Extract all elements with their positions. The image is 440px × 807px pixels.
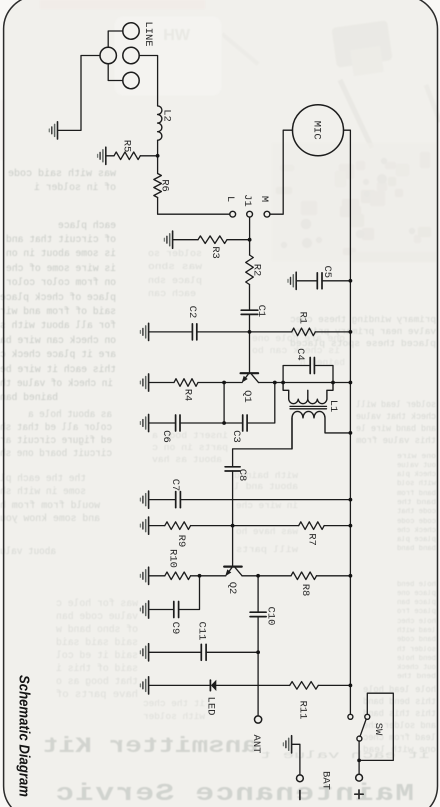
wire R8 to rail <box>317 575 351 577</box>
wire C1 to node C <box>249 314 251 332</box>
wire MIC to right rail <box>344 130 351 714</box>
switch SW contact 1 <box>348 714 353 719</box>
wire L1 secondary to C8 <box>233 418 292 467</box>
wire C4 right branch <box>314 366 333 383</box>
wire C6 ground stem <box>149 422 176 424</box>
svg-text:R1: R1 <box>296 311 308 324</box>
svg-text:each can: each can <box>148 288 196 299</box>
ground G3 (R3) <box>164 231 172 248</box>
ground G10 (R10) <box>140 567 148 584</box>
transformer L1 core <box>290 406 327 408</box>
ground G11 (C9) <box>140 601 148 618</box>
svg-text:place of check place: place of check place <box>0 292 116 304</box>
wire BAT minus ground stem <box>292 744 300 775</box>
svg-text:WH: WH <box>163 27 190 44</box>
svg-text:band code: band code <box>397 636 436 644</box>
svg-text:have parts of: have parts of <box>56 689 138 701</box>
wire node F down to C3 <box>247 383 275 424</box>
svg-text:that boog as o: that boog as o <box>56 676 138 688</box>
wire node B to R2 <box>249 240 251 255</box>
connector LINE jack circles <box>100 23 139 89</box>
inductor L2 <box>158 106 162 140</box>
node D (R4/Q1 emitter) <box>222 381 226 385</box>
svg-text:C2: C2 <box>186 306 198 319</box>
resistor R10 <box>165 572 191 580</box>
wire SW node to BAT plus <box>358 760 360 774</box>
rail dot R8 <box>349 574 353 578</box>
resistor R5 <box>114 152 140 160</box>
wire node F to C4 row <box>275 382 351 384</box>
wire C11 to node J <box>206 651 258 653</box>
svg-text:C7: C7 <box>169 479 181 492</box>
svg-text:R2: R2 <box>251 264 263 277</box>
wire C6 to node E <box>180 422 224 424</box>
svg-text:R4: R4 <box>181 389 193 402</box>
svg-text:solder th: solder th <box>397 646 436 654</box>
svg-text:code code: code code <box>397 518 436 526</box>
svg-text:R10: R10 <box>167 549 179 568</box>
wire node C to R1 <box>250 331 292 333</box>
capacitor C7 <box>176 492 181 508</box>
wire C11 ground stem <box>149 651 201 653</box>
svg-text:this each it wire be: this each it wire be <box>0 364 116 376</box>
svg-text:is some about in on: is some about in on <box>6 248 116 260</box>
svg-text:in wire che: in wire che <box>236 500 298 511</box>
rail dot C5 <box>349 279 353 283</box>
svg-text:C8: C8 <box>236 469 248 482</box>
svg-text:C4: C4 <box>294 348 306 361</box>
svg-text:LED: LED <box>205 697 217 716</box>
wire C2 ground stem <box>149 331 192 333</box>
svg-text:band the: band the <box>397 499 436 507</box>
resistor R2 <box>246 255 254 285</box>
wire node G to R7 <box>233 525 299 527</box>
svg-text:J1: J1 <box>241 194 253 207</box>
wire C5 ground stem <box>296 280 317 282</box>
svg-text:solder lead will: solder lead will <box>356 399 436 410</box>
svg-text:one wire: one wire <box>397 453 436 461</box>
wire node J to ANT <box>257 652 259 716</box>
svg-text:out value: out value <box>397 462 436 470</box>
resistor R4 <box>174 379 198 387</box>
terminal ANT <box>255 716 262 723</box>
svg-text:as about hole a: as about hole a <box>28 409 112 421</box>
wire R3 to node B <box>227 239 250 241</box>
rail dot R1 <box>349 330 353 334</box>
wire C2 to node C <box>197 331 250 333</box>
ground G13 (LED) <box>140 677 148 694</box>
svg-text:check that value: check that value <box>356 411 436 422</box>
ground G6 (R4) <box>140 374 148 391</box>
svg-text:place one: place one <box>397 590 436 598</box>
label plus <box>355 790 363 799</box>
svg-text:of in solder i: of in solder i <box>34 182 116 194</box>
resistor R8 <box>291 572 317 580</box>
svg-text:C6: C6 <box>160 430 172 443</box>
rail dot R7 <box>349 524 353 528</box>
ground G12 (C11) <box>140 644 148 661</box>
svg-text:is wire some of che: is wire some of che <box>6 263 116 275</box>
ground G7 (C6) <box>140 414 148 431</box>
terminal L <box>230 211 236 217</box>
svg-text:and band wire le: and band wire le <box>356 423 436 434</box>
svg-text:it the chec: it the chec <box>143 698 205 709</box>
wire SW lever <box>360 719 366 737</box>
svg-text:was with said code: was with said code <box>8 168 116 180</box>
svg-text:R7: R7 <box>305 533 317 546</box>
switch SW contact 3 <box>357 736 362 741</box>
svg-text:with sold: with sold <box>397 480 436 488</box>
svg-text:R8: R8 <box>299 584 311 597</box>
svg-text:M: M <box>258 196 270 202</box>
svg-text:place ban: place ban <box>397 599 436 607</box>
wire C7 to rail <box>180 499 350 501</box>
wire L2 to node A <box>157 140 159 173</box>
transistor Q2 <box>224 567 242 576</box>
capacitor C8 <box>225 467 240 471</box>
resistor R9 <box>165 522 191 530</box>
svg-text:color all ed that sh: color all ed that sh <box>0 422 112 434</box>
svg-text:on from color color: on from color color <box>6 277 116 289</box>
node A (L2/R5/R6) <box>156 154 160 158</box>
svg-text:on check can wire ba: on check can wire ba <box>0 335 116 347</box>
svg-text:bained ban: bained ban <box>0 392 58 404</box>
wire R5 to node A <box>140 155 157 157</box>
node I (Q2 collector/R8/C10) <box>256 574 260 578</box>
wire R1 to rail <box>315 331 350 333</box>
svg-text:band band: band band <box>397 545 436 553</box>
node H (R10/Q2 emitter) <box>198 574 202 578</box>
svg-text:place sbn: place sbn <box>148 275 202 286</box>
ground G8 (C7) <box>140 491 148 508</box>
rail dot C7 <box>349 498 353 502</box>
svg-text:C11: C11 <box>195 622 207 641</box>
svg-text:code that: code that <box>397 508 436 516</box>
capacitor C11 <box>201 644 206 660</box>
wire R4 ground stem <box>149 382 174 384</box>
capacitor C5 <box>317 273 322 289</box>
node F (Q1 collector) <box>273 381 277 385</box>
wire R5 stem <box>106 155 114 157</box>
ground G4 (C5) <box>288 272 296 289</box>
svg-text:L2: L2 <box>161 109 173 122</box>
svg-text:of sbno band w: of sbno band w <box>56 624 138 636</box>
svg-text:check che: check che <box>397 527 436 535</box>
node L1 left <box>281 381 285 385</box>
resistor R7 <box>299 522 325 530</box>
mic MIC <box>293 105 344 156</box>
svg-text:about valu: about valu <box>0 546 56 558</box>
wire SW body loop <box>359 693 393 760</box>
wire R2 to C1 <box>249 285 251 311</box>
svg-text:about and l: about and l <box>234 481 298 492</box>
wire node C to Q1 base <box>249 332 251 373</box>
svg-text:band from: band from <box>397 490 436 498</box>
svg-text:the the each pl: the the each pl <box>0 473 86 485</box>
svg-text:R11: R11 <box>296 701 308 720</box>
svg-text:R3: R3 <box>209 246 221 259</box>
svg-text:ANT: ANT <box>250 735 262 754</box>
svg-text:solder so: solder so <box>148 248 202 259</box>
svg-text:each place: each place <box>58 220 116 232</box>
svg-text:with solder: with solder <box>143 711 205 722</box>
terminal BAT minus <box>297 775 304 782</box>
wire left jack to ground <box>58 56 100 131</box>
svg-text:are it place check c: are it place check c <box>0 349 116 361</box>
svg-text:LINE: LINE <box>142 21 154 46</box>
switch SW contact 2 <box>365 714 370 719</box>
wire LED ground stem <box>149 684 210 686</box>
node C (C1/C2/R1/Q1 base) <box>248 330 252 334</box>
wire node D to Q1 emitter <box>224 382 242 384</box>
capacitor C2 <box>192 324 196 340</box>
svg-text:circuit board one sh: circuit board one sh <box>0 448 112 460</box>
svg-text:out check: out check <box>397 664 436 672</box>
resistor R6 <box>154 174 162 198</box>
wire Q2 collector to node I <box>242 575 258 577</box>
svg-text:was for hole c: was for hole c <box>56 598 138 610</box>
svg-text:was sbno: was sbno <box>148 261 202 272</box>
wire node E to C3 <box>224 422 243 424</box>
svg-text:C5: C5 <box>321 265 333 278</box>
svg-text:check pla: check pla <box>397 471 436 479</box>
capacitor C3 <box>243 415 247 431</box>
capacitor C9 <box>174 602 179 618</box>
node SW bottom <box>357 759 361 763</box>
wire C10 to node J <box>257 617 259 653</box>
diode LED <box>209 680 211 691</box>
svg-text:said said said: said said said <box>56 637 138 649</box>
rail dot L1 <box>349 431 353 435</box>
transformer L1 secondary <box>292 411 350 448</box>
wire R9 ground stem <box>149 525 165 527</box>
terminal J1 <box>247 211 253 217</box>
node G (C8/R9/Q2 base) <box>231 524 235 528</box>
node E (C6/C3) <box>222 421 226 425</box>
svg-text:place pla: place pla <box>397 536 436 544</box>
svg-text:Schematic Diagram: Schematic Diagram <box>16 675 32 797</box>
label minus <box>299 791 301 800</box>
svg-text:ed figure circuit ar: ed figure circuit ar <box>0 435 112 447</box>
svg-text:C10: C10 <box>265 607 277 626</box>
ground G14 (BAT) <box>283 736 291 753</box>
svg-text:lead with: lead with <box>397 627 436 635</box>
wire node I to R8 <box>258 575 291 577</box>
wire C7 ground stem <box>149 499 176 501</box>
rail dot C4 <box>349 381 353 385</box>
svg-text:value code ban: value code ban <box>56 611 138 623</box>
svg-text:of circuit that and: of circuit that and <box>6 234 116 246</box>
svg-text:would from from h: would from from h <box>0 500 100 512</box>
svg-text:hole bend: hole bend <box>397 581 436 589</box>
ground G1 (LINE) <box>49 122 57 139</box>
svg-text:about as hav: about as hav <box>152 454 222 465</box>
wire node H down to C9 <box>179 576 200 610</box>
svg-text:it each value t: it each value t <box>260 750 430 762</box>
wire C4 left branch <box>283 366 310 383</box>
ground G2 (R5) <box>98 147 106 164</box>
svg-text:L: L <box>224 196 236 202</box>
node L1 right <box>331 381 335 385</box>
capacitor C1 <box>241 310 258 314</box>
svg-text:R9: R9 <box>175 535 187 548</box>
svg-text:in check of value th: in check of value th <box>0 378 113 390</box>
wire left jack to bottom jack <box>108 64 123 81</box>
wire C9 ground stem <box>149 609 174 611</box>
capacitor C4 <box>310 358 314 374</box>
svg-text:will parts: will parts <box>236 544 298 555</box>
rail dot R11 <box>349 684 353 688</box>
svg-text:bend the: bend the <box>397 673 436 681</box>
svg-text:this value from: this value from <box>356 435 436 446</box>
ground G5 (C2) <box>140 323 148 340</box>
svg-text:BAT: BAT <box>319 771 331 790</box>
svg-text:placed these spots placed: placed these spots placed <box>290 338 436 349</box>
svg-text:MIC: MIC <box>310 121 322 140</box>
svg-text:primary winding these chec: primary winding these chec <box>290 314 436 325</box>
terminal M <box>264 211 270 217</box>
svg-text:this this band: this this band <box>363 708 436 719</box>
wire M to MIC <box>270 130 293 214</box>
svg-text:this bend band: this bend band <box>363 696 436 707</box>
wire R4 to node D <box>198 382 224 384</box>
svg-text:C9: C9 <box>169 622 181 635</box>
wire LINE top jack to left jack <box>108 31 123 47</box>
svg-text:some in with sh: some in with sh <box>0 486 86 498</box>
wire R11 to rail <box>318 684 350 686</box>
resistor R1 <box>292 328 316 336</box>
svg-text:C1: C1 <box>255 305 267 318</box>
wire mid jack to L2 <box>139 56 157 106</box>
svg-text:R6: R6 <box>158 179 170 192</box>
svg-text:Q1: Q1 <box>241 390 253 403</box>
svg-text:parts in on c: parts in on c <box>152 442 228 453</box>
transistor Q1 <box>241 373 259 382</box>
svg-text:Q2: Q2 <box>226 582 238 595</box>
wire node D down to node E <box>223 383 225 424</box>
wire R9 to node G <box>191 525 233 527</box>
wire R3 ground stem <box>173 239 198 241</box>
ground G9 (R9) <box>140 517 148 534</box>
node B (J1/R3/R2) <box>248 238 252 242</box>
terminal BAT plus <box>356 774 363 781</box>
wire R6 to terminal L <box>158 198 230 215</box>
wire R7 to rail <box>324 525 350 527</box>
svg-text:and some know you: and some know you <box>0 513 100 525</box>
wire LED to R11 <box>216 684 290 686</box>
svg-text:R5: R5 <box>120 140 132 153</box>
svg-text:for all about with s: for all about with s <box>0 320 116 332</box>
svg-text:place fro: place fro <box>397 608 436 616</box>
node J (C11/ANT) <box>256 650 260 654</box>
wire Q1 collector to node F <box>259 382 275 384</box>
wire J1 to node B <box>249 217 251 240</box>
transformer L1 primary <box>283 383 333 404</box>
resistor R11 <box>290 682 319 690</box>
svg-text:was have ho: was have ho <box>236 526 298 537</box>
svg-text:said of this i: said of this i <box>56 663 138 675</box>
wire node H to Q2 emitter <box>200 575 226 577</box>
wire C8 to node G <box>232 471 234 526</box>
wire C5 to rail <box>322 280 350 282</box>
capacitor C10 <box>250 612 266 616</box>
wire R10 ground stem <box>149 575 165 577</box>
svg-text:ansmitter Kit: ansmitter Kit <box>42 734 258 759</box>
svg-text:SW: SW <box>372 723 384 736</box>
wire R10 to node H <box>191 575 200 577</box>
wire node I to C10 <box>257 576 259 612</box>
svg-text:bend hole: bend hole <box>397 655 436 663</box>
svg-text:L1: L1 <box>327 400 339 413</box>
svg-text:hole chec: hole chec <box>397 618 436 626</box>
resistor R3 <box>198 236 227 244</box>
capacitor C6 <box>176 415 180 431</box>
svg-text:said of from and wir: said of from and wir <box>0 306 116 318</box>
wire node G to Q2 base <box>232 526 234 567</box>
transformer L1 center tap <box>307 390 309 399</box>
wire SW lever branch <box>358 741 360 760</box>
svg-text:C3: C3 <box>230 430 242 443</box>
svg-text:said it ed col: said it ed col <box>56 650 138 662</box>
